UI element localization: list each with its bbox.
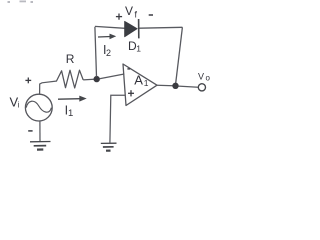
- wire: diode cathode to top-right corner: [140, 26, 183, 29]
- wire: right side down to output junction: [176, 27, 183, 84]
- svg-text:i: i: [18, 100, 20, 109]
- wire: non-inverting input left and down to ground: [110, 95, 125, 143]
- node: output junction (dot): [172, 83, 178, 89]
- svg-text:1: 1: [68, 108, 73, 119]
- op-amp non-inverting input label +: [128, 90, 134, 96]
- svg-text:R: R: [66, 52, 75, 66]
- resistor R: [57, 70, 84, 88]
- op-amp inverting input label -: [127, 68, 130, 70]
- wire: top rail, left corner to diode anode: [95, 26, 125, 28]
- diode D1: [125, 19, 139, 38]
- arrow I2: [98, 34, 116, 40]
- label - (source): [28, 130, 32, 132]
- wire: node to op-amp inverting input: [100, 74, 125, 79]
- svg-text:V: V: [125, 4, 133, 18]
- faint cropped text remnants at top edge: [8, 1, 34, 4]
- label + (anode of Vf): [116, 14, 122, 20]
- node: inverting-input junction (dot): [94, 76, 100, 82]
- wire: source top lead up and right to resistor: [40, 81, 57, 94]
- svg-text:2: 2: [106, 48, 111, 58]
- svg-text:1: 1: [136, 44, 141, 54]
- ground (source): [30, 142, 51, 150]
- op-amp A1 (triangle): [123, 64, 157, 106]
- source Vi (AC source circle): [25, 94, 52, 121]
- svg-text:A: A: [134, 72, 143, 87]
- wire: feedback branch, node up to top rail: [95, 27, 97, 77]
- svg-text:1: 1: [144, 78, 149, 88]
- svg-text:o: o: [206, 73, 211, 82]
- label - (cathode of Vf): [149, 14, 153, 16]
- arrow I1: [58, 96, 87, 102]
- ground (op-amp non-inverting input): [101, 143, 117, 151]
- wire: op-amp output to junction: [157, 84, 173, 86]
- wire: source bottom lead to ground: [39, 121, 41, 142]
- wire: resistor to node: [83, 78, 94, 81]
- sine wave inside source: [26, 101, 51, 112]
- wire: junction to output terminal: [179, 86, 199, 87]
- label + (source): [25, 78, 31, 84]
- svg-text:V: V: [198, 71, 204, 81]
- output terminal (open circle): [198, 84, 205, 91]
